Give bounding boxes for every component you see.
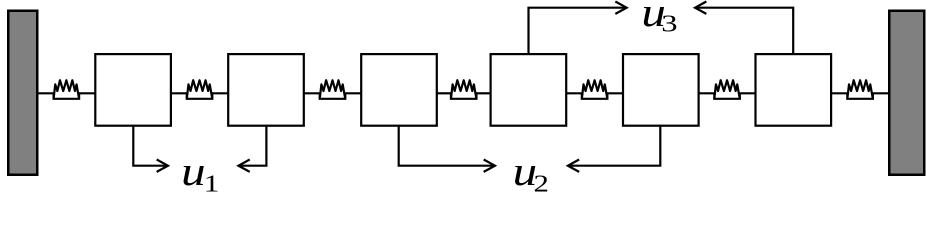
spring k7 (m6 to right wall): [831, 80, 889, 99]
mass m2: [228, 54, 304, 126]
svg-text:3: 3: [661, 10, 677, 37]
displacement arrow u1 left arm (from mass m1, right-pointing): [133, 126, 168, 172]
displacement arrow u2 right arm (from mass m5, left-pointing): [568, 126, 661, 172]
spring k3 (m2 to m3): [304, 80, 361, 99]
mass m4: [491, 54, 567, 126]
label u1: [181, 148, 219, 198]
svg-text:1: 1: [204, 171, 220, 193]
spring k4 (m3 to m4): [437, 80, 491, 99]
displacement arrow u3 right arm (from mass m6, left-pointing): [695, 2, 794, 55]
label u3: [641, 0, 677, 37]
spring k1 (wall to m1): [38, 80, 96, 99]
left wall: [8, 11, 37, 175]
displacement arrow u2 left arm (from mass m3, right-pointing): [399, 126, 496, 172]
label u2: [513, 148, 549, 198]
displacement arrow u3 left arm (from mass m4, right-pointing): [529, 2, 627, 55]
right wall: [889, 11, 924, 175]
mass m5: [623, 54, 699, 126]
mass m6: [756, 54, 832, 126]
spring k6 (m5 to m6): [699, 80, 756, 99]
spring k5 (m4 to m5): [566, 80, 623, 99]
mass m1: [95, 54, 171, 126]
svg-text:2: 2: [534, 171, 549, 192]
displacement arrow u1 right arm (from mass m2, left-pointing): [238, 126, 266, 172]
mass m3: [361, 54, 437, 126]
svg-text:u: u: [181, 148, 206, 192]
spring k2 (m1 to m2): [171, 80, 228, 99]
